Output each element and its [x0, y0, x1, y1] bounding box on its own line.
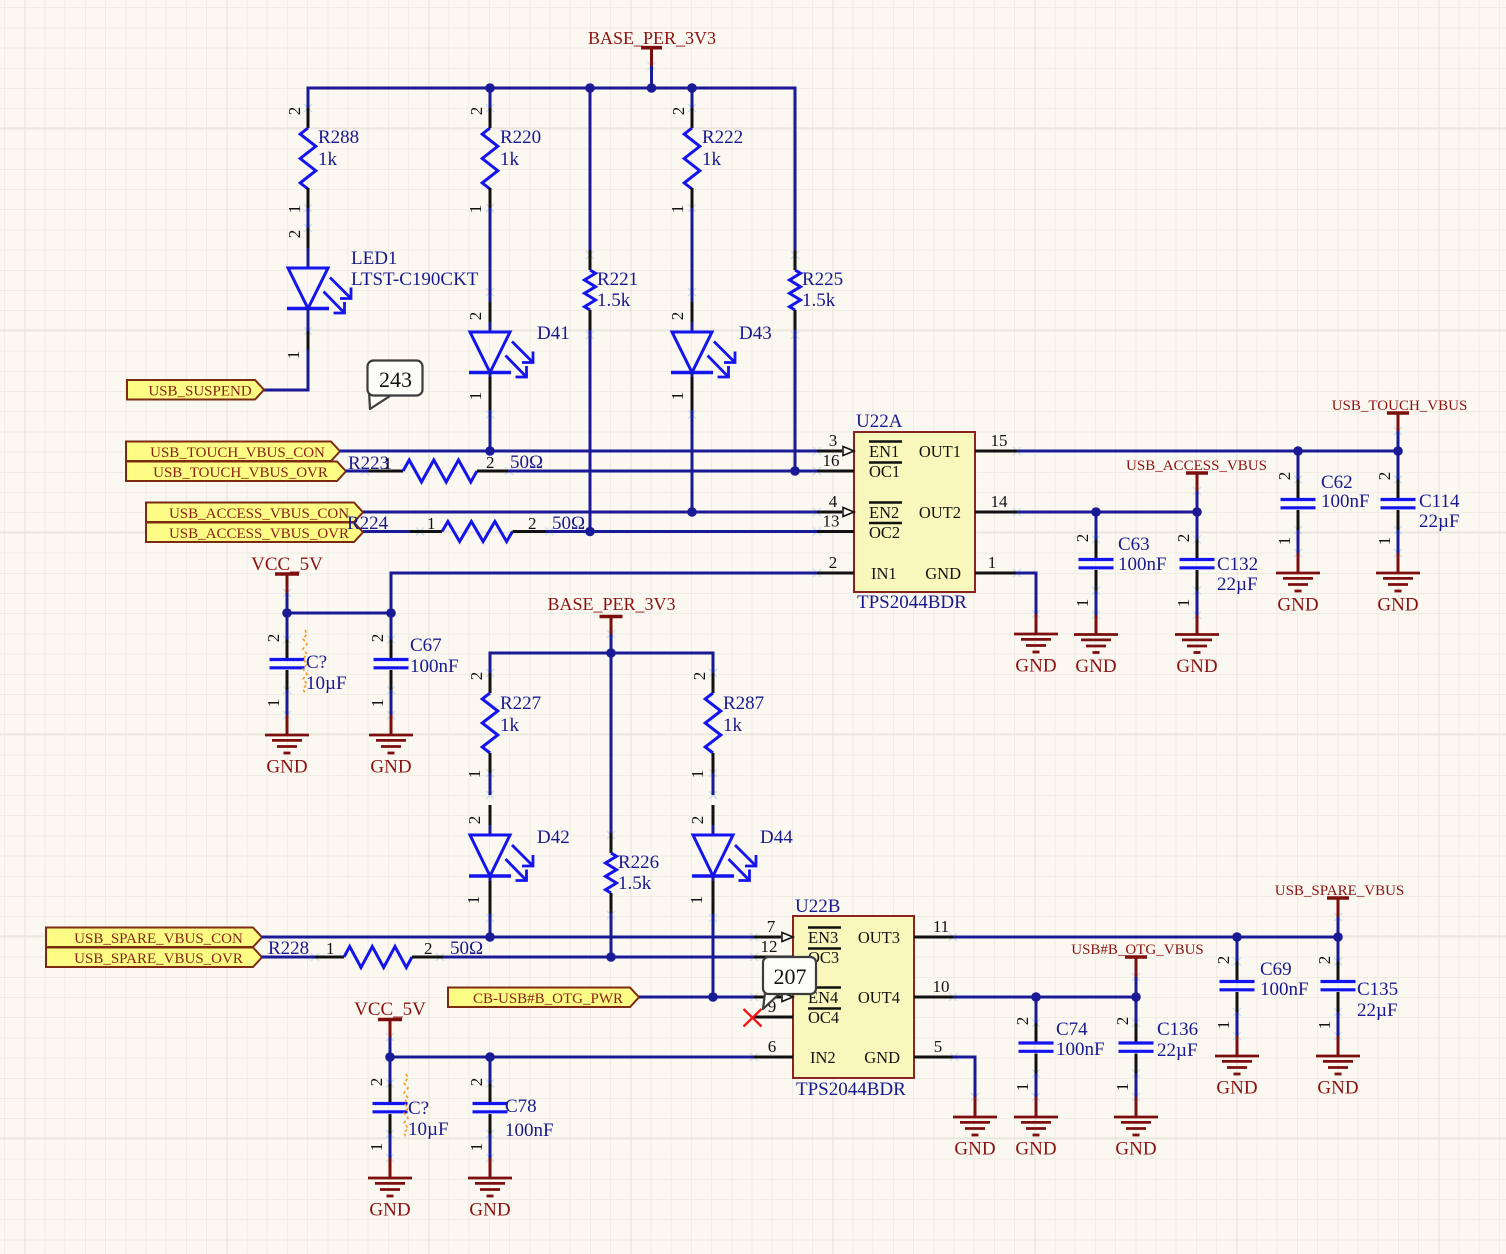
junction C136 on OUT4 — [1131, 992, 1141, 1002]
junction C63 on OUT2 — [1091, 507, 1101, 517]
pin 6 IN2 — [754, 1037, 836, 1067]
ground GND under C62 — [1276, 553, 1320, 616]
svg-text:GND: GND — [1015, 656, 1056, 677]
port CB-USB#B_OTG_PWR — [448, 988, 639, 1008]
pin 16 OC1 — [817, 451, 902, 481]
svg-text:2: 2 — [285, 230, 304, 239]
svg-text:1: 1 — [466, 205, 485, 214]
junction VCC rail at C67 — [386, 608, 396, 618]
ground GND under C63 — [1074, 615, 1118, 677]
resistor R220 — [466, 107, 541, 214]
svg-text:U22B: U22B — [795, 896, 840, 917]
svg-text:LTST-C190CKT: LTST-C190CKT — [351, 269, 479, 290]
wire C67 to GND — [390, 690, 393, 715]
svg-text:2: 2 — [264, 634, 283, 643]
wire lower 3V3 bus — [490, 652, 713, 655]
svg-text:LED1: LED1 — [351, 248, 397, 269]
svg-text:2: 2 — [467, 107, 486, 116]
resistor R288 — [285, 107, 359, 214]
svg-text:C132: C132 — [1217, 554, 1258, 575]
svg-text:2: 2 — [690, 672, 709, 681]
wire U22A GND pin to ground — [1017, 573, 1036, 614]
capacitor C136 22uF — [1113, 997, 1198, 1091]
svg-text:OC1: OC1 — [869, 462, 900, 481]
wire bus to R222 — [691, 88, 694, 108]
svg-text:12: 12 — [761, 937, 778, 956]
svg-text:R288: R288 — [318, 127, 359, 148]
svg-text:1: 1 — [1275, 537, 1294, 546]
svg-text:USB_ACCESS_VBUS_OVR: USB_ACCESS_VBUS_OVR — [169, 526, 349, 542]
wire R228 to OC3 — [443, 956, 754, 959]
capacitor C69 100nF — [1214, 937, 1309, 1029]
op-amp U22B TPS2044BDR body — [793, 896, 914, 1100]
ground GND under C? (top) — [265, 715, 309, 778]
ground GND under C114 — [1376, 553, 1420, 616]
junction C62 on OUT1 — [1293, 446, 1303, 456]
svg-text:10: 10 — [933, 977, 950, 996]
diode D41 — [466, 302, 570, 410]
wire USB_TOUCH_VBUS_CON to EN1 — [340, 450, 817, 453]
capacitor C135 22uF — [1315, 937, 1398, 1029]
power port USB_SPARE_VBUS — [1275, 883, 1405, 937]
svg-text:11: 11 — [933, 917, 949, 936]
svg-text:GND: GND — [1075, 656, 1116, 677]
svg-text:100nF: 100nF — [505, 1120, 554, 1141]
svg-text:2: 2 — [1174, 534, 1193, 543]
port USB_SPARE_VBUS_OVR — [46, 948, 262, 968]
wire OUT2 to USB_ACCESS_VBUS — [1017, 511, 1197, 514]
wire OUT4 to USB#B_OTG_VBUS — [953, 996, 1136, 999]
svg-text:1: 1 — [1113, 1083, 1132, 1092]
junction R221 on OC2 net — [585, 527, 595, 537]
wire C74 to GND — [1035, 1074, 1038, 1098]
svg-text:C?: C? — [306, 652, 327, 673]
wire U22B GND pin to ground — [954, 1057, 975, 1097]
diode D43 — [668, 302, 772, 410]
power port USB_TOUCH_VBUS — [1332, 398, 1468, 451]
svg-text:D42: D42 — [537, 827, 570, 848]
svg-text:1.5k: 1.5k — [618, 873, 652, 894]
wire D42 to EN3 net — [489, 914, 492, 937]
svg-text:1.5k: 1.5k — [597, 290, 631, 311]
ground GND under C69 — [1215, 1036, 1259, 1099]
svg-text:D43: D43 — [739, 323, 772, 344]
svg-text:7: 7 — [767, 917, 776, 936]
power port VCC_5V (lower) — [354, 999, 426, 1037]
svg-text:D41: D41 — [537, 323, 570, 344]
svg-text:3: 3 — [829, 431, 838, 450]
junction C132 on OUT2 — [1192, 507, 1202, 517]
capacitor C78 100nF — [467, 1057, 554, 1151]
svg-text:GND: GND — [1216, 1078, 1257, 1099]
pin 1 GND — [925, 553, 1017, 583]
pin 3 EN1 — [817, 431, 902, 461]
svg-text:C78: C78 — [505, 1096, 537, 1117]
svg-text:GND: GND — [1115, 1139, 1156, 1160]
svg-text:1: 1 — [367, 1143, 386, 1152]
svg-text:10µF: 10µF — [306, 673, 347, 694]
wire C135 to GND — [1337, 1012, 1340, 1036]
svg-text:2: 2 — [465, 816, 484, 825]
resistor R221 — [585, 250, 639, 330]
junction D44 on EN4 net — [708, 992, 718, 1002]
svg-text:1: 1 — [1375, 537, 1394, 546]
svg-text:BASE_PER_3V3: BASE_PER_3V3 — [588, 28, 716, 48]
wire lower C? to GND — [389, 1134, 392, 1158]
wire bus corner to R287 — [712, 653, 715, 673]
svg-text:OC4: OC4 — [808, 1008, 839, 1027]
svg-text:GND: GND — [266, 757, 307, 778]
pin 12 OC3 — [754, 937, 841, 967]
pin 9 OC4 unconnected — [754, 997, 841, 1027]
wire R227 to D42 — [489, 773, 492, 795]
wire D43 to EN2 net — [691, 410, 694, 512]
svg-text:22µF: 22µF — [1419, 511, 1460, 532]
svg-text:22µF: 22µF — [1157, 1040, 1198, 1061]
port USB_ACCESS_VBUS_CON — [146, 503, 363, 523]
pin 10 OUT4 — [858, 977, 953, 1007]
LED LED1 LTST-C190CKT — [284, 228, 479, 359]
svg-text:OUT3: OUT3 — [858, 928, 900, 947]
svg-text:TPS2044BDR: TPS2044BDR — [857, 592, 967, 613]
svg-text:2: 2 — [466, 312, 485, 321]
svg-text:C63: C63 — [1118, 534, 1150, 555]
svg-text:2: 2 — [669, 107, 688, 116]
wire VCC_5V lower stem — [389, 1037, 392, 1057]
no-ERC marker on pin 9 — [744, 1009, 762, 1027]
svg-text:R227: R227 — [500, 693, 541, 714]
capacitor C? 10uF (lower) — [367, 1057, 449, 1151]
svg-text:1.5k: 1.5k — [802, 290, 836, 311]
junction on bus at R220 — [485, 83, 495, 93]
svg-text:C135: C135 — [1357, 979, 1398, 1000]
resistor R227 — [465, 672, 541, 779]
svg-text:2: 2 — [1073, 534, 1092, 543]
ground GND under C135 — [1316, 1036, 1360, 1099]
wire bus to R288 pin 2 — [307, 88, 310, 108]
svg-text:2: 2 — [688, 816, 707, 825]
junction D42 on EN3 net — [485, 932, 495, 942]
power port BASE_PER_3V3 (top) — [588, 28, 716, 66]
svg-text:USB_SUSPEND: USB_SUSPEND — [148, 383, 252, 399]
svg-text:GND: GND — [1317, 1078, 1358, 1099]
svg-text:1: 1 — [465, 770, 484, 779]
svg-text:GND: GND — [864, 1048, 900, 1067]
svg-text:OUT4: OUT4 — [858, 988, 900, 1007]
svg-text:BASE_PER_3V3: BASE_PER_3V3 — [547, 594, 675, 614]
svg-text:1: 1 — [464, 896, 483, 905]
wire bus corner to R225 — [794, 88, 797, 250]
svg-text:GND: GND — [1277, 595, 1318, 616]
svg-text:2: 2 — [467, 1078, 486, 1087]
svg-text:GND: GND — [1015, 1139, 1056, 1160]
resistor R225 — [790, 250, 844, 330]
svg-text:5: 5 — [934, 1037, 943, 1056]
junction R226 on OC3 net — [606, 952, 616, 962]
svg-text:1: 1 — [368, 699, 387, 708]
svg-text:C62: C62 — [1321, 472, 1353, 493]
svg-text:2: 2 — [367, 1078, 386, 1087]
wire R225 to OC1 net — [794, 330, 797, 471]
wire R287 to D44 — [712, 773, 715, 795]
ground GND under C136 — [1114, 1097, 1158, 1160]
pin 7 EN3 — [754, 917, 841, 947]
svg-text:C?: C? — [408, 1098, 429, 1119]
note 207 — [763, 957, 816, 1009]
wire bus corner to R227 — [489, 653, 492, 673]
port USB_SPARE_VBUS_CON — [46, 928, 262, 948]
svg-text:2: 2 — [829, 553, 838, 572]
svg-text:VCC_5V: VCC_5V — [251, 554, 323, 575]
svg-text:22µF: 22µF — [1217, 574, 1258, 595]
wire R221 to OC2 net — [589, 330, 592, 532]
svg-text:2: 2 — [424, 939, 433, 958]
svg-text:4: 4 — [829, 492, 838, 511]
svg-text:100nF: 100nF — [410, 656, 459, 677]
resistor R226 — [606, 833, 660, 913]
wire R220 to D41 — [489, 208, 492, 302]
capacitor C? 10uF (top) — [264, 613, 347, 707]
svg-text:USB_ACCESS_VBUS_CON: USB_ACCESS_VBUS_CON — [169, 506, 349, 522]
svg-text:EN1: EN1 — [869, 442, 899, 461]
wire BASE_PER_3V3 stem to bus — [650, 66, 653, 88]
svg-text:D44: D44 — [760, 827, 793, 848]
svg-text:1: 1 — [467, 1143, 486, 1152]
wire D41 to EN1 net — [489, 410, 492, 451]
svg-text:1: 1 — [668, 392, 687, 401]
svg-text:GND: GND — [370, 757, 411, 778]
wire R224 to OC2 — [546, 530, 817, 533]
ground GND under C67 — [369, 715, 413, 778]
svg-text:2: 2 — [368, 634, 387, 643]
svg-text:2: 2 — [467, 672, 486, 681]
pin 14 OUT2 — [919, 492, 1017, 522]
svg-text:EN3: EN3 — [808, 928, 838, 947]
pin 5 GND — [864, 1037, 954, 1067]
op-amp U22A TPS2044BDR body — [854, 411, 975, 613]
svg-text:2: 2 — [1315, 956, 1334, 965]
svg-text:C69: C69 — [1260, 959, 1292, 980]
svg-text:15: 15 — [991, 431, 1008, 450]
wire C136 to GND — [1135, 1074, 1138, 1098]
pin 11 OUT3 — [858, 917, 953, 947]
wire VCC rail to IN2 — [390, 1056, 754, 1059]
svg-text:2: 2 — [1375, 472, 1394, 481]
svg-text:R287: R287 — [723, 693, 764, 714]
svg-text:1k: 1k — [500, 715, 520, 736]
ground GND under U22B — [953, 1097, 997, 1160]
svg-text:IN1: IN1 — [871, 564, 897, 583]
junction C69 on OUT3 — [1232, 932, 1242, 942]
svg-text:USB_TOUCH_VBUS_CON: USB_TOUCH_VBUS_CON — [150, 445, 325, 461]
capacitor C74 100nF — [1013, 997, 1105, 1091]
svg-text:1: 1 — [285, 205, 304, 214]
wire CB-USB#B_OTG_PWR to EN4 — [639, 996, 754, 999]
junction D41 on EN1 net — [485, 446, 495, 456]
junction lower bus at R226 — [606, 648, 616, 658]
junction lower rail at C10u — [385, 1052, 395, 1062]
junction C74 on OUT4 — [1031, 992, 1041, 1002]
svg-text:1: 1 — [264, 699, 283, 708]
svg-text:OC2: OC2 — [869, 523, 900, 542]
svg-text:1: 1 — [1013, 1083, 1032, 1092]
pin 8 EN4 — [754, 988, 841, 1008]
svg-text:C114: C114 — [1419, 491, 1460, 512]
wire USB_SPARE_VBUS_CON to EN3 — [262, 936, 754, 939]
svg-text:R222: R222 — [702, 127, 743, 148]
junction VCC rail at C10u — [282, 608, 292, 618]
wire R223 to OC1 — [508, 470, 817, 473]
resistor R222 — [668, 107, 743, 214]
wire C114 to GND — [1397, 530, 1400, 553]
wire C132 to GND — [1196, 591, 1199, 616]
pin 4 EN2 — [817, 492, 902, 522]
svg-text:USB_TOUCH_VBUS_OVR: USB_TOUCH_VBUS_OVR — [153, 465, 328, 481]
svg-text:OUT2: OUT2 — [919, 503, 961, 522]
wire LED1 to USB_SUSPEND port — [264, 351, 308, 390]
svg-text:R226: R226 — [618, 852, 659, 873]
svg-text:207: 207 — [774, 964, 807, 989]
wire R222 to D43 — [691, 208, 694, 302]
svg-text:1k: 1k — [723, 715, 743, 736]
svg-text:14: 14 — [991, 492, 1009, 511]
port USB_TOUCH_VBUS_CON — [126, 442, 340, 462]
svg-text:1: 1 — [988, 553, 997, 572]
wire top 3V3 bus — [308, 87, 795, 90]
svg-text:R228: R228 — [268, 938, 309, 959]
ground GND under C132 — [1175, 615, 1219, 677]
svg-text:GND: GND — [925, 564, 961, 583]
svg-text:100nF: 100nF — [1260, 979, 1309, 1000]
svg-text:2: 2 — [285, 107, 304, 116]
svg-text:22µF: 22µF — [1357, 1000, 1398, 1021]
junction C114 on OUT1 — [1393, 446, 1403, 456]
resistor R228 50ohm — [262, 938, 483, 968]
wire C? to GND — [286, 690, 289, 715]
wire USB_ACCESS_VBUS_CON to EN2 — [363, 511, 817, 514]
svg-text:1: 1 — [284, 351, 303, 360]
svg-text:USB_SPARE_VBUS_OVR: USB_SPARE_VBUS_OVR — [74, 951, 243, 967]
svg-text:2: 2 — [486, 453, 495, 472]
resistor R287 — [688, 672, 764, 779]
svg-text:1k: 1k — [500, 149, 520, 170]
svg-text:2: 2 — [1275, 472, 1294, 481]
svg-text:1: 1 — [1174, 599, 1193, 608]
svg-text:OUT1: OUT1 — [919, 442, 961, 461]
wire bus to R226 — [610, 653, 613, 833]
wire VCC rail to IN1 — [287, 573, 817, 613]
resistor R223 50ohm — [346, 452, 543, 482]
svg-text:EN2: EN2 — [869, 503, 899, 522]
power port USB#B_OTG_VBUS — [1071, 942, 1204, 997]
power port VCC_5V (top) — [251, 554, 323, 593]
svg-text:R224: R224 — [347, 513, 389, 534]
svg-text:USB_SPARE_VBUS_CON: USB_SPARE_VBUS_CON — [74, 931, 243, 947]
svg-text:1: 1 — [1214, 1021, 1233, 1030]
svg-text:243: 243 — [379, 367, 412, 392]
svg-text:TPS2044BDR: TPS2044BDR — [796, 1079, 906, 1100]
svg-text:1: 1 — [1073, 599, 1092, 608]
svg-text:C136: C136 — [1157, 1019, 1198, 1040]
svg-text:C67: C67 — [410, 635, 442, 656]
svg-text:2: 2 — [528, 514, 537, 533]
svg-text:100nF: 100nF — [1118, 554, 1167, 575]
svg-text:1: 1 — [687, 896, 706, 905]
junction C135 on OUT3 — [1333, 932, 1343, 942]
junction on bus at R222 — [687, 83, 697, 93]
svg-text:GND: GND — [1176, 656, 1217, 677]
svg-text:GND: GND — [1377, 595, 1418, 616]
port USB_TOUCH_VBUS_OVR — [126, 462, 346, 482]
svg-text:R225: R225 — [802, 269, 843, 290]
resistor R224 50ohm — [347, 513, 585, 542]
pin 13 OC2 — [817, 512, 902, 543]
pin 2 IN1 — [817, 553, 897, 583]
svg-text:1: 1 — [384, 454, 393, 473]
wire C63 to GND — [1095, 591, 1098, 616]
port USB_SUSPEND — [127, 380, 264, 400]
svg-text:16: 16 — [823, 451, 840, 470]
svg-text:R221: R221 — [597, 269, 638, 290]
ground GND under lower C? — [368, 1158, 412, 1221]
wire bus to R221 — [589, 88, 592, 250]
svg-text:VCC_5V: VCC_5V — [354, 999, 426, 1020]
svg-text:GND: GND — [369, 1200, 410, 1221]
svg-text:1: 1 — [427, 514, 436, 533]
wire C78 to GND — [489, 1134, 492, 1158]
svg-text:U22A: U22A — [856, 411, 903, 432]
power port BASE_PER_3V3 (lower) — [547, 594, 675, 634]
capacitor C67 100nF — [368, 613, 459, 707]
svg-text:C74: C74 — [1056, 1019, 1088, 1040]
svg-text:2: 2 — [668, 312, 687, 321]
svg-text:1: 1 — [326, 939, 335, 958]
svg-text:1: 1 — [668, 205, 687, 214]
note 243 — [368, 361, 423, 410]
svg-text:R220: R220 — [500, 127, 541, 148]
junction R225 on OC1 net — [790, 466, 800, 476]
svg-text:CB-USB#B_OTG_PWR: CB-USB#B_OTG_PWR — [473, 991, 623, 1007]
svg-text:100nF: 100nF — [1321, 491, 1370, 512]
junction lower rail at C78 — [485, 1052, 495, 1062]
wire OUT3 to USB_SPARE_VBUS — [953, 936, 1338, 939]
ground GND under C78 — [468, 1158, 512, 1221]
svg-text:10µF: 10µF — [408, 1119, 449, 1140]
pin 15 OUT1 — [919, 431, 1017, 461]
svg-text:13: 13 — [823, 512, 840, 531]
wire R288 to LED1 — [307, 208, 310, 228]
diode D42 — [464, 805, 570, 914]
wire D44 to EN4 net — [712, 914, 715, 997]
junction D43 on EN2 net — [687, 507, 697, 517]
svg-text:GND: GND — [954, 1139, 995, 1160]
svg-text:2: 2 — [1214, 956, 1233, 965]
junction on bus at power stem — [647, 83, 657, 93]
capacitor C63 100nF — [1073, 512, 1167, 607]
wire C62 to GND — [1297, 530, 1300, 553]
wire OUT1 to USB_TOUCH_VBUS — [1017, 450, 1398, 453]
svg-text:100nF: 100nF — [1056, 1039, 1105, 1060]
diode D44 — [687, 805, 793, 914]
wire bus to R220 — [489, 88, 492, 108]
wire BASE_PER_3V3 lower stem — [610, 634, 613, 653]
svg-text:1: 1 — [688, 770, 707, 779]
svg-text:2: 2 — [1113, 1017, 1132, 1026]
svg-text:IN2: IN2 — [810, 1048, 836, 1067]
svg-text:1: 1 — [1315, 1021, 1334, 1030]
svg-text:2: 2 — [1013, 1017, 1032, 1026]
junction on bus at R221 — [585, 83, 595, 93]
